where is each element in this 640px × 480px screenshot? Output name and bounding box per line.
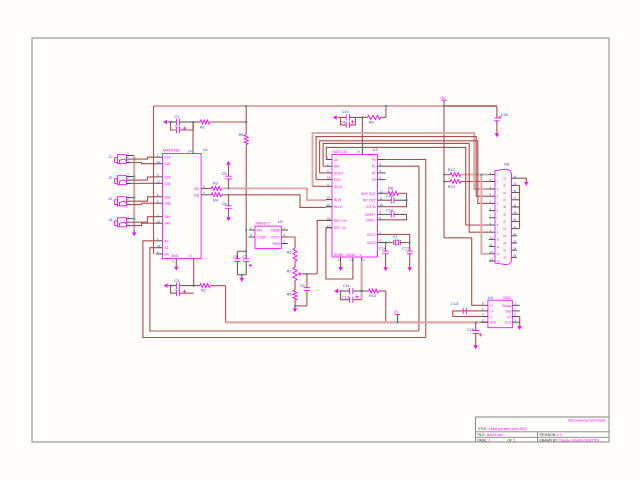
- svg-text:R13: R13: [448, 184, 455, 189]
- svg-text:DB: DB: [194, 193, 199, 197]
- trimmer wiper arrow R7: [299, 273, 303, 276]
- M1 pin 4: [489, 195, 495, 197]
- junction jack bus J3: [133, 197, 135, 199]
- ADC U3 MAX132 body: [332, 155, 378, 258]
- svg-text:OSC2: OSC2: [367, 241, 376, 245]
- capacitor C18: [475, 321, 477, 323]
- wire +5V bus vertical right: [443, 106, 445, 238]
- svg-text:16: 16: [503, 191, 506, 195]
- svg-text:FILE:: FILE:: [478, 433, 486, 437]
- U1 pin 2 EN: [156, 253, 163, 255]
- U1 pin 1 A0: [156, 240, 163, 242]
- svg-text:S2B: S2B: [164, 182, 171, 186]
- wire C16 to CREF-: [386, 214, 407, 219]
- svg-text:C2: C2: [175, 124, 180, 129]
- svg-text:REVISION:: REVISION:: [540, 433, 557, 437]
- U1 pin 7 DB: [201, 194, 209, 196]
- svg-text:8: 8: [497, 223, 499, 227]
- svg-text:18: 18: [327, 217, 331, 221]
- svg-text:4: 4: [497, 194, 499, 198]
- capacitor C1: [171, 121, 177, 123]
- wire U1 pin 14 vertical: [192, 122, 194, 149]
- wire DIN net bundle line 4: [323, 143, 489, 232]
- svg-text:18: 18: [513, 203, 516, 207]
- svg-text:C11: C11: [343, 283, 350, 288]
- node junction C1C2-R1: [192, 121, 194, 123]
- wire U4 right ground: [519, 317, 521, 327]
- svg-text:S3B: S3B: [164, 202, 171, 206]
- M1 pin 8: [489, 224, 495, 226]
- svg-text:M1: M1: [504, 161, 509, 166]
- resistor R9: [355, 116, 367, 118]
- svg-text:S4B: S4B: [164, 222, 171, 226]
- capacitor C20: [496, 114, 498, 118]
- wire U2 VOUT to divider: [288, 237, 295, 248]
- svg-text:C4: C4: [175, 287, 181, 292]
- U3 pin 17 REF- IN: [326, 227, 332, 229]
- svg-text:12: 12: [497, 252, 500, 256]
- svg-text:3: 3: [127, 193, 129, 197]
- svg-text:R1: R1: [200, 124, 205, 129]
- svg-text:18: 18: [327, 176, 331, 180]
- svg-text:S2A: S2A: [164, 175, 171, 179]
- wire +5V rail extension to C20: [444, 105, 497, 107]
- M1 pin 22: [512, 235, 518, 237]
- svg-text:P2: P2: [372, 171, 376, 175]
- M1 pin 10: [489, 238, 495, 240]
- wire REF- IN to AGND loop: [326, 228, 353, 279]
- capacitor C17: [409, 243, 411, 252]
- svg-text:U4: U4: [488, 295, 494, 300]
- resistor R11: [294, 281, 296, 291]
- U3 pin 18 REF+ IN: [326, 219, 332, 221]
- pin stubs J4: [127, 218, 135, 220]
- svg-text:9: 9: [380, 176, 382, 180]
- svg-text:19: 19: [503, 212, 506, 216]
- U4 pin 8 V+: [481, 304, 488, 306]
- svg-text:TEMP: TEMP: [271, 229, 281, 233]
- svg-text:8: 8: [380, 216, 382, 220]
- svg-text:R10: R10: [369, 293, 377, 298]
- svg-text:C1: C1: [174, 114, 179, 119]
- svg-text:14: 14: [188, 150, 192, 154]
- U3 pin 16 V+ top: [361, 148, 363, 154]
- resistor R8: [386, 192, 388, 194]
- wire J3 tip to U1: [131, 197, 156, 201]
- U3 pin 12 BUF OUT: [378, 192, 386, 194]
- U3 pin 9 P3: [378, 179, 386, 181]
- capacitor C11a: [341, 117, 347, 125]
- U3 pin 2 DIN: [326, 165, 332, 167]
- svg-text:OF:: OF:: [508, 439, 514, 443]
- svg-text:LV: LV: [507, 315, 512, 319]
- power arrow up above C5: [226, 161, 230, 165]
- svg-text:PAGE:: PAGE:: [478, 439, 488, 443]
- svg-text:Gnd: Gnd: [505, 321, 512, 325]
- svg-text:X1: X1: [393, 234, 398, 239]
- U1 pin 11 S4B: [156, 222, 163, 224]
- U3 pin 8 P1: [378, 165, 386, 167]
- svg-text:15: 15: [503, 184, 506, 188]
- svg-text:V-: V-: [359, 253, 362, 257]
- U3 pin 6 OSC2: [378, 242, 386, 244]
- wire J1 tip to U1: [131, 157, 156, 159]
- U3 pin 5 OSC1: [378, 233, 386, 235]
- svg-text:15: 15: [513, 182, 516, 186]
- svg-text:S1B: S1B: [164, 162, 171, 166]
- wire EOC net bundle line 2: [316, 137, 489, 197]
- U1 pin 8 DA: [201, 187, 209, 189]
- ground symbol M1 pin14: [524, 182, 528, 186]
- svg-text:R6: R6: [287, 291, 292, 296]
- resistor R1: [193, 121, 200, 123]
- svg-text:A1: A1: [164, 246, 168, 250]
- wire M1 pin14 to ground: [517, 178, 526, 182]
- svg-text:GND: GND: [171, 254, 179, 258]
- M1 pin 24: [512, 249, 518, 251]
- svg-text:19: 19: [513, 211, 516, 215]
- svg-text:3: 3: [497, 187, 499, 191]
- power arrow V- left of C1: [163, 120, 167, 124]
- connector J4 audio jack: [115, 218, 127, 227]
- svg-text:13: 13: [490, 257, 493, 261]
- svg-text:MAX4582: MAX4582: [163, 148, 180, 153]
- svg-text:V-: V-: [189, 254, 192, 258]
- wire R10 to V- rail: [385, 291, 387, 322]
- wire SCLK net bundle line 1 wide: [313, 133, 489, 189]
- wire DA net to U3 IN HI: [222, 188, 326, 200]
- pin stubs J1: [127, 155, 135, 157]
- svg-text:CS: CS: [334, 158, 339, 162]
- analog mux U1 MAX4582 body: [163, 154, 202, 259]
- U3 pin 6 P2: [378, 172, 386, 174]
- svg-text:11: 11: [490, 243, 493, 247]
- svg-text:11: 11: [380, 196, 383, 200]
- svg-text:1: 1: [497, 173, 499, 177]
- capacitor C15: [386, 199, 392, 201]
- svg-text:C9: C9: [300, 283, 305, 288]
- svg-text:DRAWN BY:: DRAWN BY:: [540, 439, 558, 443]
- svg-text:2: 2: [497, 180, 499, 184]
- svg-text:VOUT: VOUT: [271, 236, 280, 240]
- connector J2 audio jack: [115, 176, 127, 185]
- svg-text:12: 12: [380, 189, 384, 193]
- U1 pin 10 S1B: [156, 163, 163, 165]
- svg-text:5: 5: [482, 318, 484, 322]
- capacitor C9: [306, 274, 308, 288]
- svg-text:TRIM: TRIM: [272, 242, 280, 246]
- U3 pin 10 INT IN: [378, 206, 386, 208]
- wire U1 V- down: [193, 261, 195, 285]
- svg-text:21: 21: [503, 227, 506, 231]
- node DB C6: [228, 194, 230, 196]
- svg-text:10: 10: [157, 160, 161, 164]
- svg-text:14: 14: [327, 196, 331, 200]
- ground symbol U4: [518, 326, 522, 330]
- M1 pin 19: [512, 213, 518, 215]
- wire OSC1 loop: [386, 234, 410, 242]
- wire R2 to V- rail: [225, 286, 227, 323]
- M1 pin 15: [512, 184, 518, 186]
- svg-text:18: 18: [503, 205, 506, 209]
- svg-text:IN HI: IN HI: [334, 198, 342, 202]
- U1 pin 7 S4A: [156, 216, 163, 218]
- connector J1 audio jack: [115, 155, 127, 164]
- svg-text:R5: R5: [239, 132, 244, 137]
- svg-text:P0: P0: [372, 158, 376, 162]
- ground symbol C8 C7: [240, 278, 244, 282]
- junction jack bus J2: [133, 176, 135, 178]
- svg-text:Claude Girardi (IN3OTD): Claude Girardi (IN3OTD): [559, 439, 600, 443]
- wire R9 up to +5V rail: [385, 106, 387, 117]
- svg-text:Boost: Boost: [502, 304, 511, 308]
- resistor R10: [362, 290, 369, 292]
- wire DB net to U3 IN LO: [222, 195, 326, 208]
- svg-text:3: 3: [127, 214, 129, 218]
- svg-text:R8: R8: [388, 186, 393, 191]
- sheet border frame: [32, 38, 609, 442]
- wire R5 bus down to C8 C7: [245, 145, 247, 252]
- svg-text:10: 10: [380, 203, 384, 207]
- wire +5V bus to U4 V+: [444, 238, 481, 305]
- svg-text:3: 3: [127, 151, 129, 155]
- svg-text:C13: C13: [451, 301, 458, 306]
- node U2 VIN on bus: [245, 229, 247, 231]
- U4 pin 2 C+: [481, 310, 488, 312]
- svg-text:12: 12: [490, 250, 493, 254]
- capacitor C14: [385, 243, 387, 252]
- svg-text:C5: C5: [222, 171, 227, 176]
- svg-text:BUF OUT: BUF OUT: [361, 192, 375, 196]
- wire C13 loop to C- pin: [453, 311, 481, 317]
- M1 pin 5: [489, 202, 495, 204]
- svg-text:R7: R7: [287, 268, 292, 273]
- svg-text:16: 16: [357, 149, 361, 153]
- capacitor C8: [237, 250, 246, 252]
- svg-text:U2: U2: [278, 219, 283, 224]
- wire REF+ IN to wiper: [317, 220, 326, 274]
- svg-text:S1A: S1A: [164, 156, 171, 160]
- wire V- rail wide: [226, 321, 481, 323]
- wire J2 tip to U1: [131, 177, 156, 180]
- svg-text:COMP: COMP: [256, 236, 267, 240]
- svg-text:C8: C8: [233, 254, 238, 259]
- trimmer R7: [293, 267, 297, 280]
- node wiper C9: [306, 273, 308, 275]
- svg-text:DIN: DIN: [334, 165, 340, 169]
- U1 pin 8 S3B: [156, 202, 163, 204]
- svg-text:11: 11: [157, 219, 160, 223]
- svg-text:P1: P1: [372, 165, 376, 169]
- svg-text:+5V: +5V: [440, 96, 447, 100]
- svg-text:20: 20: [513, 218, 516, 222]
- svg-text:16: 16: [157, 244, 161, 248]
- svg-text:VIN: VIN: [256, 229, 262, 233]
- ground symbol C14: [383, 267, 387, 271]
- svg-text:25: 25: [513, 254, 516, 258]
- svg-text:R12: R12: [448, 167, 455, 172]
- junction jack bus J4: [133, 218, 135, 220]
- svg-text:EN: EN: [164, 252, 169, 256]
- M1 pin 17: [512, 199, 518, 201]
- node junction R1 to R5 bus: [245, 121, 247, 123]
- svg-text:10: 10: [490, 236, 493, 240]
- U4 pin 3 Gnd: [512, 321, 519, 323]
- svg-text:R6: R6: [287, 249, 292, 254]
- svg-text:18bit parallel port ADC: 18bit parallel port ADC: [489, 426, 528, 431]
- ground symbol C17: [408, 267, 412, 271]
- svg-text:7: 7: [497, 216, 499, 220]
- svg-text:3: 3: [514, 318, 516, 322]
- svg-text:17: 17: [503, 198, 506, 202]
- U3 pin 9 CREF+: [378, 213, 386, 215]
- svg-text:1.0: 1.0: [557, 433, 562, 437]
- U3 pin 14 IN HI: [326, 199, 332, 201]
- svg-text:R2: R2: [201, 287, 206, 292]
- M1 pin 2: [489, 181, 495, 183]
- svg-text:24: 24: [503, 248, 506, 252]
- svg-text:DGND: DGND: [334, 253, 344, 257]
- svg-text:C12: C12: [342, 295, 349, 300]
- power arrow down below C6: [226, 217, 230, 221]
- resistor R6: [293, 248, 297, 261]
- U1 pin 5 S2A: [156, 176, 163, 178]
- svg-text:1: 1: [157, 237, 159, 241]
- svg-text:R9: R9: [369, 120, 374, 125]
- U3 pin 7 P0: [378, 159, 386, 161]
- svg-text:6: 6: [363, 258, 365, 262]
- svg-text:9: 9: [157, 193, 159, 197]
- svg-text:22: 22: [513, 232, 516, 236]
- wire M1 ground bus right: [519, 185, 521, 228]
- wire R8 to INT IN: [386, 193, 407, 206]
- svg-text:DOUT: DOUT: [334, 171, 343, 175]
- svg-text:S3A: S3A: [164, 195, 171, 199]
- U3 pin 18 EOC: [326, 179, 332, 181]
- U1 pin 12 S2B: [156, 182, 163, 184]
- ground symbol below J4: [132, 232, 136, 236]
- svg-text:IN LO: IN LO: [334, 205, 343, 209]
- charge pump U4 7660 body: [488, 300, 512, 328]
- svg-text:1: 1: [489, 439, 491, 443]
- wire A0 bottom rail: [143, 241, 426, 338]
- svg-text:C20: C20: [501, 112, 509, 117]
- svg-text:14: 14: [513, 175, 516, 179]
- svg-text:C16: C16: [386, 207, 393, 212]
- wire C8 C7 bottom node: [237, 274, 246, 276]
- ground symbol C20: [495, 133, 499, 137]
- svg-text:C3: C3: [174, 278, 179, 283]
- svg-text:17: 17: [513, 196, 516, 200]
- U3 pin 8 CREF-: [378, 219, 386, 221]
- capacitor C2: [171, 122, 177, 130]
- svg-text:V+: V+: [489, 304, 493, 308]
- svg-text:12: 12: [157, 179, 161, 183]
- resistor R5: [245, 105, 247, 107]
- wire pin1 to pin12 wide net: [481, 175, 488, 254]
- svg-text:P3: P3: [372, 178, 376, 182]
- capacitor C3: [171, 285, 177, 287]
- pin stubs J3: [127, 197, 135, 199]
- U3 pin 15 IN LO: [326, 206, 332, 208]
- M1 pin 14: [512, 177, 518, 179]
- power arrow V- left of C10: [333, 115, 337, 119]
- wire divider bottom node: [295, 305, 307, 307]
- wire J2 ring to U1: [131, 182, 156, 184]
- svg-text:3: 3: [196, 259, 198, 263]
- svg-text:REF+ IN: REF+ IN: [334, 219, 347, 223]
- U3 pin 3 DOUT: [326, 172, 332, 174]
- svg-text:Osc: Osc: [505, 309, 511, 313]
- M1 pin 12: [489, 253, 495, 255]
- resistor R3: [209, 187, 212, 189]
- U2 pin 8 COMP: [249, 236, 255, 238]
- svg-text:C18: C18: [467, 327, 474, 332]
- svg-text:9: 9: [497, 230, 499, 234]
- M1 pin 20: [512, 220, 518, 222]
- U4 pin 5 Vout: [481, 321, 488, 323]
- svg-text:DA: DA: [194, 187, 199, 191]
- ground symbol C18: [474, 345, 478, 349]
- svg-text:C10: C10: [342, 109, 350, 114]
- M1 pin 13: [489, 260, 495, 262]
- svg-text:C-: C-: [489, 315, 493, 319]
- power arrow down divider bottom: [294, 306, 296, 308]
- svg-text:3: 3: [127, 172, 129, 176]
- power arrow V- left of C3: [164, 283, 168, 287]
- svg-text:20: 20: [503, 220, 506, 224]
- M1 pin 21: [512, 228, 518, 230]
- wire +5V left drop to EN: [153, 106, 155, 254]
- svg-text:21: 21: [513, 225, 516, 229]
- wire A1 bottom rail: [150, 248, 419, 331]
- M1 pin 6: [489, 210, 495, 212]
- U3 pin 4 SCLK: [326, 185, 332, 187]
- svg-text:6: 6: [172, 259, 174, 263]
- U1 pin 16 A1: [156, 247, 163, 249]
- wire J3 ring to U1: [131, 203, 156, 204]
- M1 pin 23: [512, 242, 518, 244]
- wire +5V top rail wide: [154, 105, 497, 107]
- svg-text:J3: J3: [108, 197, 112, 201]
- wire J4 tip to U1: [131, 217, 156, 223]
- M1 pin 1: [489, 174, 495, 176]
- svg-text:25: 25: [503, 256, 506, 260]
- svg-text:C4: C4: [340, 120, 346, 125]
- svg-text:7660: 7660: [503, 296, 511, 300]
- capacitor C4: [171, 286, 177, 294]
- crystal X1: [386, 242, 393, 244]
- svg-text:1: 1: [514, 439, 516, 443]
- svg-text:C6: C6: [222, 201, 227, 206]
- M1 pin 3: [489, 188, 495, 190]
- wire J4 ring to U1: [131, 223, 156, 225]
- wire DOUT net bundle line 3: [320, 141, 489, 204]
- U4 pin 6 LV: [512, 316, 519, 318]
- svg-text:adc18.sch: adc18.sch: [487, 433, 504, 437]
- wire P1 net to A1 rail: [386, 166, 419, 331]
- U1 pin 2 S1A: [156, 156, 163, 158]
- svg-text:16: 16: [513, 189, 516, 193]
- M1 pin 7: [489, 217, 495, 219]
- connector M1 DB25 body: [495, 169, 512, 264]
- svg-text:CREF-: CREF-: [366, 218, 376, 222]
- svg-text:23: 23: [513, 239, 516, 243]
- U2 pin 5 TRIM: [281, 243, 288, 245]
- svg-text:13: 13: [497, 259, 500, 263]
- svg-text:6: 6: [497, 209, 499, 213]
- svg-text:AGND: AGND: [346, 253, 356, 257]
